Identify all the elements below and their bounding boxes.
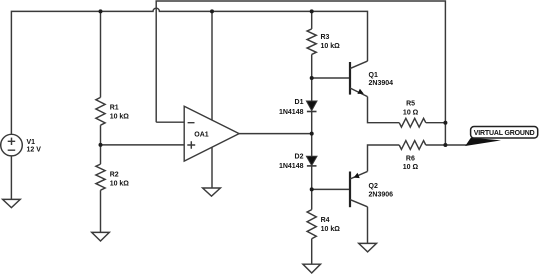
wire R3 top [311, 11, 313, 29]
svg-text:10 kΩ: 10 kΩ [321, 226, 341, 233]
net flag pointer [465, 138, 501, 146]
net label VIRTUAL GROUND [471, 127, 538, 139]
voltage source V1 [1, 134, 23, 156]
svg-text:2N3904: 2N3904 [369, 80, 394, 87]
svg-text:VIRTUAL GROUND: VIRTUAL GROUND [474, 130, 535, 137]
wire feedback from inverting input to output node [156, 1, 445, 145]
node R3/D1/Q1 base [310, 76, 314, 80]
ground (Q2) [359, 243, 377, 252]
svg-text:1N4148: 1N4148 [279, 109, 304, 116]
node R5/feedback [443, 121, 447, 125]
wire R1 top [100, 11, 102, 97]
svg-text:10 Ω: 10 Ω [403, 164, 419, 171]
Q1 emitter arrow [357, 89, 363, 94]
wire R5 right to feedback node [426, 122, 446, 124]
resistor R2 [96, 164, 105, 190]
svg-text:OA1: OA1 [194, 131, 209, 138]
diode D2 1N4148 [306, 156, 317, 165]
node divider mid [99, 143, 103, 147]
wire Q2 collector to ground [367, 207, 369, 244]
svg-text:R2: R2 [110, 172, 119, 179]
resistor R3 [307, 29, 316, 55]
wire R6 left to Q2 emitter [368, 145, 400, 171]
wire inverting input [156, 121, 184, 123]
wire op-amp V+ pin [211, 11, 213, 120]
wire R4 bottom to ground [311, 239, 313, 265]
svg-text:R5: R5 [406, 100, 415, 107]
svg-text:Q2: Q2 [369, 183, 378, 190]
wire R1 bottom to R2 top [100, 125, 102, 164]
node D2/R4/Q2 base [310, 187, 314, 191]
wire non-inverting input from divider [101, 144, 185, 146]
svg-text:R3: R3 [321, 34, 330, 41]
wire op-amp output [239, 133, 312, 135]
wire R6 right to virtual ground flag [426, 144, 467, 146]
svg-text:Q1: Q1 [369, 72, 378, 79]
node rail/op-amp V+ [210, 9, 214, 13]
wire +12V rail with hop [11, 8, 367, 134]
svg-text:R6: R6 [406, 156, 415, 163]
node op-amp output [310, 132, 314, 136]
transistor Q2 2N3906 [349, 172, 351, 208]
ground (R4) [303, 264, 321, 273]
Q2 emitter arrow [354, 173, 360, 178]
resistor R1 [96, 97, 105, 125]
wire R3 bottom to D1 [311, 54, 313, 101]
wire op-amp V- pin to ground [211, 147, 213, 188]
svg-text:10 kΩ: 10 kΩ [321, 43, 341, 50]
ground (R2) [92, 232, 110, 241]
ground (V1) [3, 199, 21, 207]
svg-text:1N4148: 1N4148 [279, 163, 304, 170]
resistor R5 [399, 118, 426, 127]
svg-text:D1: D1 [295, 99, 304, 106]
wire Q1 base [312, 77, 350, 79]
resistor R6 [399, 141, 426, 150]
svg-text:R4: R4 [321, 217, 330, 224]
wire Q2 base [312, 188, 350, 190]
svg-text:2N3906: 2N3906 [369, 192, 394, 199]
resistor R4 [307, 210, 316, 239]
wire R2 bottom to ground [100, 190, 102, 232]
wire V1 bottom to ground [10, 156, 12, 199]
node R6/feedback [443, 143, 447, 147]
label V1 value [27, 34, 419, 233]
node rail/R3 [310, 9, 314, 13]
ground (op-amp) [203, 188, 221, 196]
svg-text:10 kΩ: 10 kΩ [110, 181, 130, 188]
wire D2 to R4 [311, 166, 313, 210]
diode D1 1N4148 [306, 101, 317, 166]
op-amp OA1 [184, 106, 239, 161]
svg-text:10 kΩ: 10 kΩ [110, 114, 130, 121]
transistor Q1 2N3904 [349, 62, 351, 95]
node rail/R1 [99, 9, 103, 13]
svg-text:D2: D2 [295, 154, 304, 161]
svg-text:V1: V1 [27, 139, 36, 146]
svg-text:R1: R1 [110, 105, 119, 112]
wire D1 to D2 through output node [311, 112, 313, 157]
svg-text:10 Ω: 10 Ω [403, 110, 419, 117]
svg-text:12 V: 12 V [27, 147, 42, 154]
wire Q1 emitter to R5 [368, 97, 400, 123]
